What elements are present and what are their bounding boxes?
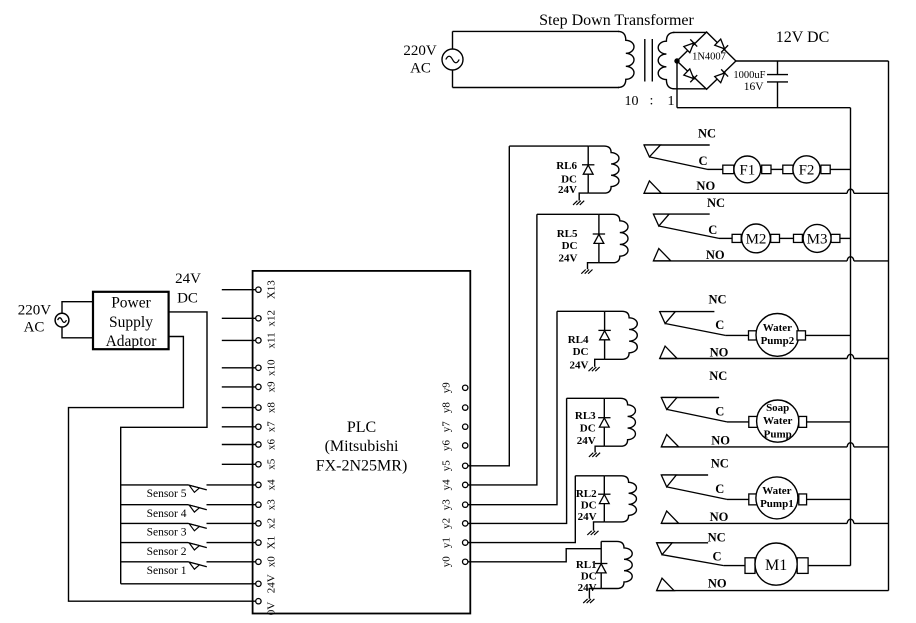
contact RL4 NC pole triangle (660, 312, 676, 324)
svg-text:Sensor 2: Sensor 2 (147, 546, 187, 558)
svg-text:C: C (715, 482, 724, 496)
contact RL3 NO wire to +12V rail (661, 446, 847, 448)
svg-text:Water: Water (763, 415, 792, 427)
wire y1 to relay RL2 (468, 476, 575, 543)
svg-text:RL2: RL2 (576, 488, 597, 500)
svg-text:24V: 24V (577, 435, 596, 447)
diode D3 (bridge lower-left) (683, 68, 697, 82)
switch Sensor 1 (121, 561, 188, 563)
wire feed to RL4 (557, 310, 605, 312)
terminal y1 (PLC output) (463, 540, 468, 545)
svg-text:1000uF: 1000uF (733, 70, 765, 81)
svg-text:x4: x4 (266, 479, 278, 491)
wire stub x11 (222, 339, 256, 341)
contact RL6 NO triangle (644, 181, 661, 193)
bridge rectifier BR1 diamond (677, 32, 736, 89)
svg-text:y5: y5 (441, 460, 453, 472)
wire RL3 coil left branch (603, 398, 605, 446)
contact RL6 NO wire to +12V rail (644, 192, 847, 194)
svg-text:F2: F2 (799, 162, 815, 178)
svg-text:y6: y6 (441, 440, 453, 452)
contact RL2 moving arm (667, 487, 727, 500)
wire RL6 to ground (579, 193, 588, 200)
svg-text:Sensor 5: Sensor 5 (147, 488, 187, 500)
wire RL3 to ground (595, 446, 604, 452)
svg-text:RL4: RL4 (568, 334, 589, 346)
wire RL2 to ground (594, 522, 605, 531)
wire feed to RL1 (600, 540, 602, 542)
diode D4 (bridge lower-right) (714, 69, 728, 83)
terminal x0 (PLC input) (256, 559, 261, 564)
contact RL5 moving arm (659, 226, 719, 238)
contact RL1 NC wire (657, 542, 709, 544)
svg-text:NC: NC (711, 457, 729, 471)
motor M2 (732, 234, 741, 242)
svg-text:NC: NC (708, 531, 726, 545)
svg-text:x8: x8 (266, 402, 278, 414)
rail: +12V (right, outer) (888, 61, 890, 591)
contact RL1 NC pole triangle (657, 543, 673, 555)
svg-text:NC: NC (708, 292, 726, 306)
svg-text:C: C (715, 404, 724, 418)
terminal y3 (PLC output) (463, 502, 468, 507)
relay RL3 coil (604, 398, 635, 446)
svg-text:x0: x0 (266, 556, 278, 568)
wire RL2 coil left branch (603, 476, 605, 522)
terminal x12 (PLC input) (256, 316, 261, 321)
contact RL4 NC wire (660, 311, 715, 313)
svg-text:RL5: RL5 (557, 228, 578, 240)
svg-text:M2: M2 (746, 231, 767, 247)
svg-text:NC: NC (707, 196, 725, 210)
terminal y9 (PLC output) (463, 385, 468, 390)
power supply adaptor U2 (93, 292, 169, 349)
terminal y5 (PLC output) (463, 463, 468, 468)
diode flyback of RL4 (598, 329, 610, 331)
switch Sensor 3 (121, 522, 188, 524)
contact RL6 NC pole triangle (644, 145, 660, 157)
AC source V1 220V AC (mains, top) (442, 49, 463, 70)
relay RL6 coil (588, 146, 619, 193)
svg-text:AC: AC (24, 320, 45, 336)
contact RL1 NO triangle (657, 578, 674, 590)
wire 0V: adaptor to PLC 0V terminal (69, 337, 256, 602)
svg-text:FX-2N25MR): FX-2N25MR) (316, 458, 408, 475)
diode flyback of RL1 (595, 563, 607, 565)
lamp F2 (783, 165, 793, 174)
diode flyback of RL3 (598, 417, 610, 419)
svg-text:Pump2: Pump2 (761, 335, 795, 347)
contact RL2 NC pole triangle (661, 475, 676, 487)
svg-text:Sensor 3: Sensor 3 (147, 527, 187, 539)
svg-text:AC: AC (410, 61, 431, 77)
svg-text:NO: NO (706, 248, 725, 262)
wire y3 to relay RL4 (468, 311, 557, 504)
motor Soap Water Pump (749, 416, 758, 427)
diode flyback of RL5 (593, 233, 605, 235)
contact RL6 moving arm (649, 157, 707, 170)
contact RL6 NC wire (644, 144, 710, 146)
terminal X13 (PLC input) (256, 287, 261, 292)
svg-text:24V: 24V (570, 359, 589, 371)
switch Sensor 5 (121, 484, 188, 486)
svg-text:220V: 220V (18, 303, 52, 319)
svg-text:y8: y8 (441, 402, 453, 414)
motor Water Pump1 (749, 494, 758, 505)
terminal X1 (PLC input) (256, 540, 261, 545)
wire F2 to return rail (830, 168, 850, 170)
contact RL4 moving arm (665, 324, 725, 336)
svg-text:Supply: Supply (109, 314, 153, 331)
svg-text:Water: Water (762, 485, 791, 497)
svg-text:(Mitsubishi: (Mitsubishi (325, 438, 399, 455)
svg-text:1: 1 (668, 94, 675, 109)
motor M3 (794, 234, 803, 242)
terminal y8 (PLC output) (463, 405, 468, 410)
relay RL2 coil (604, 476, 636, 522)
wire C to Water Pump2 (725, 334, 748, 336)
svg-text:Power: Power (111, 294, 151, 311)
svg-text:X1: X1 (266, 536, 278, 549)
svg-text:24V: 24V (559, 252, 578, 264)
svg-text:y9: y9 (441, 382, 453, 394)
svg-text:Pump: Pump (764, 429, 792, 441)
svg-text:NC: NC (709, 369, 727, 383)
rail: 0V return (right, inner) (850, 108, 852, 566)
svg-text:NO: NO (710, 510, 729, 524)
wire secondary top to bridge (673, 31, 707, 33)
svg-text:Step Down Transformer: Step Down Transformer (539, 12, 694, 29)
capacitor C1 bottom lead (777, 82, 779, 108)
terminal y7 (PLC output) (463, 424, 468, 429)
wire source to adaptor (bottom) (62, 327, 93, 338)
contact RL3 moving arm (667, 409, 727, 422)
wire RL1 to ground (589, 589, 601, 599)
wire M3 to return rail (840, 237, 851, 239)
svg-text:PLC: PLC (347, 419, 376, 436)
svg-text:24V: 24V (175, 271, 201, 287)
terminal x11 (PLC input) (256, 338, 261, 343)
ground (RL1) (583, 599, 587, 603)
contact RL4 NO wire to +12V rail (660, 358, 848, 360)
AC source V2 220V AC (left) (55, 313, 69, 327)
switch Sensor 2 (121, 542, 188, 544)
wire M1 to return rail (808, 565, 850, 567)
wire feed to RL5 (537, 213, 599, 215)
motor M1 (745, 558, 755, 574)
contact RL2 NO wire to +12V rail (661, 522, 847, 524)
motor Water Pump2 (749, 331, 757, 340)
diode D1 (bridge upper-left) (683, 39, 697, 53)
ground (RL6) (573, 201, 577, 205)
svg-text:DC: DC (581, 499, 597, 511)
terminal x3 (PLC input) (256, 502, 261, 507)
wire RL4 coil left branch (604, 311, 606, 359)
svg-text:M3: M3 (807, 231, 828, 247)
svg-text:x5: x5 (266, 458, 278, 470)
wire y0 to relay RL1 (468, 549, 601, 562)
wire Water Pump2 to return rail (806, 334, 851, 336)
diode flyback of RL2 (598, 493, 610, 495)
wire 24V: adaptor to sensor bus (121, 312, 207, 584)
svg-text:DC: DC (573, 346, 589, 358)
svg-text:Sensor 1: Sensor 1 (147, 565, 187, 577)
svg-text:RL3: RL3 (575, 410, 596, 422)
svg-text:C: C (715, 318, 724, 332)
svg-text:y2: y2 (441, 518, 453, 529)
wire feed to RL6 (509, 145, 588, 147)
svg-text:Sensor 4: Sensor 4 (147, 508, 187, 520)
wire C to motor M2 (719, 237, 732, 239)
svg-text:C: C (698, 154, 707, 168)
svg-text:C: C (708, 223, 717, 237)
capacitor C1 top lead (777, 61, 779, 75)
wire C to Soap Water Pump (727, 421, 749, 423)
svg-text:x7: x7 (266, 421, 278, 433)
wire stub x12 (222, 317, 256, 319)
svg-text:RL6: RL6 (556, 160, 577, 172)
contact RL5 NO wire to +12V rail (653, 260, 847, 262)
svg-text:DC: DC (177, 291, 198, 307)
relay RL1 coil (601, 541, 632, 588)
svg-text:y0: y0 (441, 556, 453, 568)
wire Soap Water Pump to return rail (807, 421, 851, 423)
wire y2 to relay RL3 (468, 398, 567, 523)
svg-text:1N4007: 1N4007 (692, 52, 726, 63)
svg-text:x2: x2 (266, 518, 278, 529)
svg-text:y3: y3 (441, 499, 453, 511)
svg-text:DC: DC (581, 571, 597, 583)
wire C to Water Pump1 (727, 498, 749, 500)
capacitor C1 1000uF 16V plates (767, 74, 788, 76)
wire F1 to F2 (771, 168, 783, 170)
relay RL4 coil (605, 311, 638, 359)
svg-text:x6: x6 (266, 439, 278, 451)
terminal 24V (PLC input) (256, 581, 261, 586)
wire stub X13 (222, 289, 256, 291)
contact RL5 NC wire (653, 213, 709, 215)
wire y4 to relay RL5 (468, 214, 537, 485)
terminal y2 (PLC output) (463, 521, 468, 526)
svg-text:24V: 24V (558, 184, 577, 196)
svg-text:x3: x3 (266, 499, 278, 511)
diode D2 (bridge upper-right) (714, 39, 728, 53)
svg-text:16V: 16V (744, 81, 765, 93)
svg-text:M1: M1 (765, 557, 787, 574)
ground (RL5) (581, 270, 585, 274)
contact RL1 moving arm (662, 555, 724, 566)
wire RL1 coil left branch (600, 541, 602, 588)
wire stub x10 (222, 367, 256, 369)
transformer T1 core (644, 39, 646, 82)
contact RL5 NC pole triangle (653, 214, 669, 226)
svg-text:10: 10 (625, 94, 639, 109)
svg-text:DC: DC (580, 422, 596, 434)
terminal y4 (PLC output) (463, 482, 468, 487)
svg-text:12V DC: 12V DC (776, 29, 830, 46)
svg-text:F1: F1 (739, 162, 755, 178)
transformer T1 secondary winding (658, 32, 674, 88)
wire y5 to relay RL6 (468, 146, 509, 466)
svg-text:24V: 24V (578, 582, 597, 594)
svg-text:y4: y4 (441, 479, 453, 491)
svg-text:RL1: RL1 (576, 559, 597, 571)
ground (RL2) (587, 531, 591, 535)
PLC U1 (Mitsubishi FX-2N25MR) (253, 271, 471, 614)
svg-text:y7: y7 (441, 421, 453, 433)
wire stub x6 (222, 444, 256, 446)
svg-text:Pump1: Pump1 (760, 498, 794, 510)
contact RL2 NC wire (661, 474, 708, 476)
contact RL4 NO triangle (660, 346, 677, 358)
svg-text:NC: NC (698, 127, 716, 141)
relay RL5 coil (599, 214, 628, 262)
terminal x10 (PLC input) (256, 365, 261, 370)
contact RL5 NO triangle (653, 249, 670, 261)
wire secondary bottom to bridge (673, 88, 707, 90)
wire feed to RL3 (567, 397, 605, 399)
svg-text:NO: NO (710, 345, 729, 359)
wire stub x5 (222, 463, 256, 465)
contact RL3 NC pole triangle (661, 398, 677, 410)
svg-text:24V: 24V (266, 574, 278, 593)
ground (RL4) (589, 367, 593, 371)
wire RL4 to ground (595, 359, 605, 367)
wire DC- : bridge down (676, 61, 678, 108)
lamp F1 (723, 165, 734, 174)
wire RL5 to ground (588, 263, 599, 270)
diode flyback of RL6 (582, 164, 594, 166)
wire feed to RL2 (575, 475, 604, 477)
svg-text:0V: 0V (266, 602, 278, 616)
svg-text:Soap: Soap (766, 402, 789, 414)
svg-text:DC: DC (562, 240, 578, 252)
terminal x7 (PLC input) (256, 424, 261, 429)
svg-text:X13: X13 (266, 280, 278, 299)
svg-text::: : (650, 94, 654, 109)
wire C to motor M1 (724, 565, 745, 567)
wire source to adaptor (top) (62, 302, 93, 314)
wire DC- : across to return rail (677, 107, 851, 109)
wire 24V bus to PLC 24V terminal (121, 583, 256, 585)
wire Water Pump1 to return rail (807, 498, 851, 500)
svg-text:Adaptor: Adaptor (106, 333, 158, 350)
svg-text:220V: 220V (403, 43, 437, 59)
wire stub x8 (222, 407, 256, 409)
contact RL1 NO wire to +12V rail (657, 590, 889, 592)
terminal x5 (PLC input) (256, 462, 261, 467)
terminal y6 (PLC output) (463, 443, 468, 448)
terminal x4 (PLC input) (256, 482, 261, 487)
svg-text:Water: Water (763, 322, 792, 334)
contact RL3 NC wire (661, 397, 719, 399)
transformer T1 primary winding (618, 31, 634, 87)
terminal x2 (PLC input) (256, 521, 261, 526)
terminal x8 (PLC input) (256, 405, 261, 410)
wire RL5 coil left branch (598, 214, 600, 262)
node: bridge AC- junction dot (675, 59, 679, 63)
svg-text:NO: NO (696, 179, 715, 193)
svg-text:y1: y1 (441, 537, 453, 548)
contact RL2 NO triangle (661, 511, 678, 523)
terminal y0 (PLC output) (463, 559, 468, 564)
wire C to lamp F1 (708, 168, 723, 170)
svg-text:NO: NO (708, 576, 727, 590)
wire stub x7 (222, 426, 256, 428)
svg-text:x12: x12 (266, 310, 278, 327)
wire stub x9 (222, 386, 256, 388)
wire bottom: source to transformer primary (453, 87, 620, 89)
wire M2 to M3 (780, 237, 794, 239)
contact RL3 NO triangle (661, 435, 678, 447)
terminal x6 (PLC input) (256, 442, 261, 447)
wire RL6 coil left branch (587, 146, 589, 193)
svg-text:x11: x11 (266, 332, 278, 348)
switch Sensor 4 (121, 504, 188, 506)
terminal x9 (PLC input) (256, 384, 261, 389)
svg-text:x9: x9 (266, 381, 278, 393)
svg-text:24V: 24V (578, 511, 597, 523)
svg-text:x10: x10 (266, 359, 278, 376)
svg-text:C: C (712, 549, 721, 563)
terminal 0V (PLC input) (256, 599, 261, 604)
svg-text:NO: NO (711, 434, 730, 448)
wire DC+ : bridge to 12V rail (736, 60, 889, 62)
wire top: source to transformer primary (453, 30, 620, 32)
ground (RL3) (589, 453, 593, 457)
